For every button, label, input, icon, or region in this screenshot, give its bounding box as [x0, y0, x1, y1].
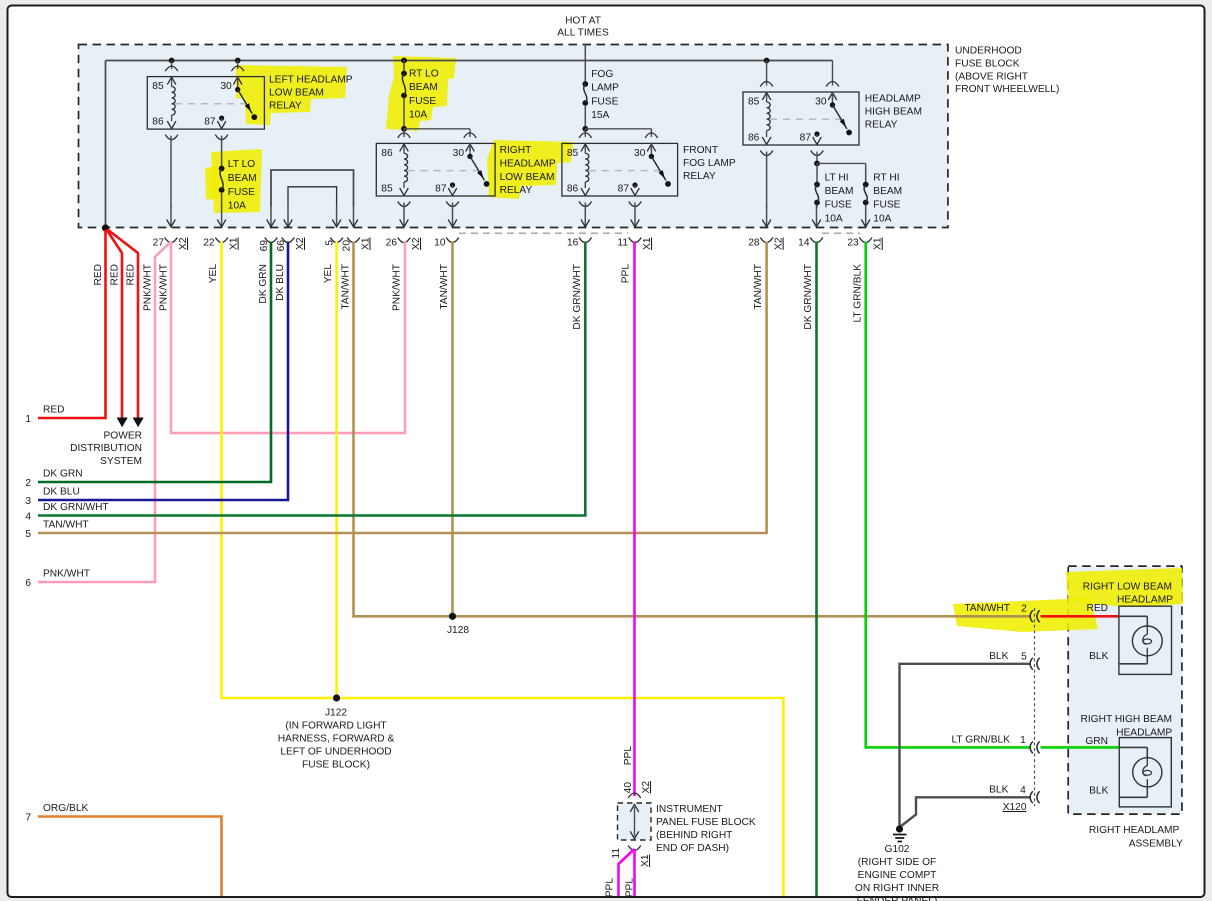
svg-text:10A: 10A [873, 213, 891, 224]
lamp E2: right high beam headlamp bulb [1119, 738, 1171, 807]
lamp E1: right low beam headlamp bulb [1119, 606, 1172, 674]
svg-text:LEFT OF UNDERHOOD: LEFT OF UNDERHOOD [280, 747, 391, 758]
svg-text:(BEHIND RIGHT: (BEHIND RIGHT [656, 830, 732, 841]
svg-text:G102: G102 [885, 844, 910, 855]
highlight: right low beam headlamp label + wire [1066, 568, 1183, 607]
svg-text:DK BLU: DK BLU [275, 264, 286, 301]
svg-text:26: 26 [386, 238, 398, 249]
svg-text:X1: X1 [642, 237, 653, 250]
svg-text:RIGHT LOW BEAM: RIGHT LOW BEAM [1083, 582, 1172, 593]
label: J122 (IN FORWARD LIGHT HARNESS...) [278, 708, 395, 771]
svg-text:INSTRUMENT: INSTRUMENT [656, 804, 723, 815]
svg-text:86: 86 [567, 184, 579, 195]
wire: DK BLU pin 66 to row 3 [38, 242, 288, 501]
wire: RED feed 1 (junction to row 1) [38, 230, 106, 418]
label: POWER DISTRIBUTION SYSTEM [70, 430, 142, 467]
svg-text:X2: X2 [411, 237, 422, 250]
svg-text:11: 11 [617, 238, 628, 249]
svg-text:87: 87 [204, 117, 216, 128]
svg-text:10A: 10A [228, 201, 246, 212]
svg-text:J128: J128 [447, 625, 469, 636]
label: RIGHT HIGH BEAM HEADLAMP [1080, 714, 1172, 739]
svg-text:RIGHT HIGH BEAM: RIGHT HIGH BEAM [1080, 714, 1172, 725]
underhood fuse block (dashed box) [79, 45, 948, 228]
connector pin 66 at fuse block bottom [276, 206, 306, 252]
svg-text:40: 40 [623, 782, 634, 794]
svg-text:X1: X1 [361, 237, 372, 250]
wire: B+ bus rail inside fuse block [106, 61, 833, 229]
wire: PNK/WHT pin 27 branch to row 6 [38, 242, 171, 583]
wire: TAN/WHT pin 20 to J128 [354, 242, 453, 617]
svg-text:BEAM: BEAM [409, 82, 438, 93]
svg-text:LT GRN/BLK: LT GRN/BLK [853, 264, 864, 323]
svg-text:X120: X120 [1003, 802, 1027, 813]
svg-text:RIGHT: RIGHT [500, 145, 532, 156]
svg-text:BEAM: BEAM [873, 186, 902, 197]
svg-text:5: 5 [1021, 652, 1027, 663]
connector pin 27 at fuse block bottom [153, 206, 189, 250]
svg-text:TAN/WHT: TAN/WHT [753, 264, 764, 310]
svg-text:TAN/WHT: TAN/WHT [964, 603, 1010, 614]
svg-text:30: 30 [453, 148, 465, 159]
connector grouping dashed line pins 10-16-11 [459, 232, 628, 234]
node: circuit 5 TAN/WHT [25, 520, 88, 541]
svg-text:FUSE BLOCK: FUSE BLOCK [955, 58, 1020, 69]
svg-text:HIGH BEAM: HIGH BEAM [865, 106, 922, 117]
connector pin 5 at fuse block bottom [325, 206, 343, 246]
connector X120 dashed line [1034, 608, 1036, 806]
instrument panel fuse block internal arrow [630, 805, 639, 839]
svg-text:20: 20 [342, 240, 353, 252]
wire: LT GRN/BLK pin 23 to right high beam headlamp [866, 242, 1030, 748]
svg-text:10: 10 [434, 238, 446, 249]
svg-text:RELAY: RELAY [500, 185, 533, 196]
highlight: LT LO BEAM FUSE label [211, 149, 262, 213]
svg-text:RED: RED [110, 264, 121, 286]
wire: BLK right low beam headlamp to G102 [900, 664, 1030, 826]
wire: GRN into right high beam headlamp [1041, 746, 1120, 749]
connector grouping dashed line pins 14-23 [822, 232, 860, 234]
svg-text:2: 2 [25, 478, 31, 489]
arrow: power distribution feed 3 [133, 418, 144, 428]
svg-text:10A: 10A [825, 213, 843, 224]
fuse: RT HI BEAM FUSE 10A [863, 163, 902, 224]
svg-text:ORG/BLK: ORG/BLK [43, 803, 88, 814]
svg-text:RELAY: RELAY [269, 100, 302, 111]
svg-text:UNDERHOOD: UNDERHOOD [955, 46, 1022, 57]
svg-text:30: 30 [634, 148, 646, 159]
wire: jumper pin 66 to pin 5 (inner bridge) [288, 187, 337, 206]
wire: DK GRN/WHT pin 14 off page bottom [815, 242, 818, 897]
svg-text:22: 22 [203, 238, 215, 249]
wire: PPL from instrument panel pin 11 straight down [633, 849, 636, 896]
svg-text:FUSE: FUSE [409, 96, 436, 107]
svg-text:RELAY: RELAY [865, 119, 898, 130]
wire: YEL pin 22 to J122 and down [222, 242, 784, 897]
svg-text:30: 30 [220, 81, 232, 92]
svg-text:RED: RED [93, 264, 104, 286]
highlight: left headlamp low beam relay label [205, 56, 1183, 632]
relay K2: RIGHT HEADLAMP LOW BEAM RELAY [376, 133, 556, 207]
connector pin 14 at fuse block bottom [798, 206, 823, 249]
svg-text:GRN: GRN [1085, 736, 1108, 747]
svg-text:11: 11 [611, 848, 622, 859]
relay K4: HEADLAMP HIGH BEAM RELAY [743, 58, 922, 156]
svg-text:BLK: BLK [989, 651, 1008, 662]
svg-text:LEFT HEADLAMP: LEFT HEADLAMP [269, 75, 353, 86]
svg-text:FUSE: FUSE [591, 96, 618, 107]
junction: fog fuse output split [582, 126, 588, 132]
svg-text:10A: 10A [409, 110, 427, 121]
svg-text:HEADLAMP: HEADLAMP [500, 158, 556, 169]
connector pin 20 at fuse block bottom [342, 206, 372, 252]
wire: RED feed 3 (to power distribution) [108, 230, 139, 419]
relay K3: FRONT FOG LAMP RELAY [562, 133, 736, 207]
svg-text:PNK/WHT: PNK/WHT [143, 264, 154, 311]
wire: PNK/WHT pin 27 to pin 26 [171, 242, 405, 434]
label: UNDERHOOD FUSE BLOCK [955, 46, 1059, 96]
svg-text:RT HI: RT HI [873, 173, 899, 184]
svg-text:30: 30 [815, 97, 827, 108]
node: HOT AT ALL TIMES feed [557, 16, 609, 39]
svg-text:YEL: YEL [208, 264, 219, 284]
wire: K2 pin 85 to connector pin 26 [403, 203, 405, 208]
svg-text:TAN/WHT: TAN/WHT [341, 264, 352, 310]
svg-text:27: 27 [153, 238, 165, 249]
svg-text:SYSTEM: SYSTEM [100, 456, 142, 467]
node: circuit 1 RED [25, 405, 64, 426]
wire: TAN/WHT pin 10 to J128 and right to headlamp [453, 242, 1030, 617]
junction J128 [449, 613, 456, 620]
svg-text:ASSEMBLY: ASSEMBLY [1129, 839, 1183, 850]
svg-text:LT LO: LT LO [228, 159, 255, 170]
connector pin 28 at fuse block bottom [748, 206, 784, 250]
svg-text:LAMP: LAMP [591, 83, 619, 94]
svg-text:X2: X2 [178, 237, 189, 250]
wire: DK GRN/WHT pin 16 to row 4 [38, 242, 585, 516]
connector pin 69 at fuse block bottom [259, 206, 277, 252]
wire: K3 pin 86 to connector pin 16 [584, 203, 586, 208]
svg-text:POWER: POWER [104, 430, 143, 441]
svg-text:PNK/WHT: PNK/WHT [392, 264, 403, 311]
svg-text:PANEL FUSE BLOCK: PANEL FUSE BLOCK [656, 817, 756, 828]
svg-text:87: 87 [618, 184, 630, 195]
svg-text:LT GRN/BLK: LT GRN/BLK [951, 735, 1010, 746]
svg-text:FUSE: FUSE [825, 200, 852, 211]
svg-text:J122: J122 [325, 708, 347, 719]
svg-text:PNK/WHT: PNK/WHT [159, 264, 170, 311]
connector pin 23 at fuse block bottom [847, 206, 883, 250]
svg-text:RIGHT HEADLAMP: RIGHT HEADLAMP [1089, 825, 1180, 836]
svg-text:85: 85 [381, 184, 393, 195]
svg-text:BLK: BLK [1089, 651, 1108, 662]
svg-text:86: 86 [152, 117, 164, 128]
svg-text:LOW BEAM: LOW BEAM [269, 87, 324, 98]
svg-text:FUSE: FUSE [873, 200, 900, 211]
svg-text:RELAY: RELAY [683, 171, 716, 182]
connector X120 pin 4 (BLK) [989, 785, 1108, 804]
svg-text:FENDER PANEL): FENDER PANEL) [857, 896, 938, 901]
svg-text:BEAM: BEAM [825, 186, 854, 197]
wire: K1 pin 86 to connector pin 27 [170, 136, 172, 208]
svg-text:TAN/WHT: TAN/WHT [43, 520, 89, 531]
svg-text:HARNESS, FORWARD &: HARNESS, FORWARD & [278, 734, 395, 745]
svg-text:BLK: BLK [989, 785, 1008, 796]
svg-text:86: 86 [381, 148, 393, 159]
svg-text:ENGINE COMPT: ENGINE COMPT [858, 870, 937, 881]
svg-text:16: 16 [567, 238, 579, 249]
svg-text:69: 69 [259, 240, 270, 252]
svg-text:87: 87 [800, 133, 812, 144]
connector X120 pin 2 (TAN/WHT to RED) [964, 603, 1108, 622]
svg-text:66: 66 [276, 240, 287, 252]
svg-text:BLK: BLK [1089, 786, 1108, 797]
wire: K3 pin 87 to connector pin 11 [634, 203, 636, 208]
connector pin 16 at fuse block bottom [567, 206, 592, 249]
svg-text:FUSE: FUSE [228, 187, 255, 198]
junction J122 [333, 694, 340, 701]
svg-text:1: 1 [1020, 735, 1026, 746]
wire: YEL pin 5 to J122 [335, 242, 338, 699]
relay K1: LEFT HEADLAMP LOW BEAM RELAY [147, 58, 353, 140]
connector pin 11 at fuse block bottom [617, 206, 653, 250]
svg-text:X2: X2 [774, 237, 785, 250]
junction dot: rail to left feed [102, 224, 109, 231]
svg-text:FRONT WHEELWELL): FRONT WHEELWELL) [955, 84, 1059, 95]
svg-text:ON RIGHT INNER: ON RIGHT INNER [855, 883, 939, 894]
svg-text:FRONT: FRONT [683, 145, 718, 156]
highlight: RT LO BEAM FUSE label [386, 56, 456, 131]
svg-text:5: 5 [25, 529, 31, 540]
connector pin 26 at fuse block bottom [386, 206, 422, 250]
svg-text:14: 14 [798, 238, 810, 249]
svg-text:85: 85 [567, 148, 579, 159]
svg-text:FOG: FOG [591, 69, 613, 80]
svg-text:HEADLAMP: HEADLAMP [1116, 728, 1172, 739]
wire: PPL pin 11 to instrument panel fuse block [633, 242, 636, 797]
wire: RED feed 2 (to power distribution) [107, 230, 123, 419]
svg-text:86: 86 [748, 133, 760, 144]
fuse: FOG LAMP FUSE 15A [582, 45, 619, 129]
right headlamp assembly (dashed box) [1068, 566, 1182, 814]
wire: fog fuse output to K3 pins 85 and 30 [585, 129, 651, 137]
svg-text:X2: X2 [295, 237, 306, 250]
wire: ORG/BLK row 7 off page bottom [38, 817, 222, 897]
svg-text:2: 2 [1021, 604, 1027, 615]
label: INSTRUMENT PANEL FUSE BLOCK [656, 804, 756, 854]
svg-text:HEADLAMP: HEADLAMP [865, 94, 921, 105]
wire: fuse output to K2 pins 86 and 30 [404, 129, 470, 137]
fuse: RT LO BEAM FUSE 10A [401, 58, 439, 129]
wire: K4 pin 86 to connector pin 28 [766, 152, 768, 208]
svg-text:15A: 15A [591, 110, 609, 121]
svg-text:DISTRIBUTION: DISTRIBUTION [70, 443, 142, 454]
svg-text:DK GRN/WHT: DK GRN/WHT [803, 264, 814, 330]
connector pin 11 out of instrument panel fuse block [611, 846, 651, 867]
node: circuit 6 PNK/WHT [25, 569, 90, 590]
svg-text:YEL: YEL [323, 264, 334, 284]
svg-text:4: 4 [25, 512, 31, 523]
wire: jumper pin 69 to pin 20 (outer bridge) [271, 170, 354, 206]
svg-text:FUSE BLOCK): FUSE BLOCK) [302, 760, 370, 771]
connector pin 22 at fuse block bottom [203, 206, 239, 250]
node: circuit 3 DK BLU [25, 487, 79, 508]
svg-text:X1: X1 [873, 237, 884, 250]
svg-text:5: 5 [325, 240, 336, 246]
svg-text:RED: RED [1086, 603, 1108, 614]
wire: RED into right low beam headlamp [1041, 615, 1119, 618]
svg-text:PPL: PPL [621, 264, 632, 284]
instrument panel fuse block (dashed box) [618, 803, 652, 840]
svg-text:DK GRN: DK GRN [43, 469, 83, 480]
svg-text:HEADLAMP: HEADLAMP [1117, 595, 1173, 606]
wire: BLK right high beam headlamp to G102 [901, 797, 1030, 826]
node: circuit 4 DK GRN/WHT [25, 502, 108, 523]
label: RIGHT HEADLAMP ASSEMBLY [1089, 825, 1183, 850]
svg-text:PNK/WHT: PNK/WHT [43, 569, 90, 580]
svg-text:(RIGHT SIDE OF: (RIGHT SIDE OF [858, 857, 937, 868]
svg-text:DK BLU: DK BLU [43, 487, 80, 498]
svg-text:FOG LAMP: FOG LAMP [683, 158, 736, 169]
svg-text:DK GRN/WHT: DK GRN/WHT [572, 264, 583, 330]
node: circuit 2 DK GRN [25, 469, 82, 490]
wire: K2 pin 87 to connector pin 10 [452, 203, 454, 208]
connector pin 40 into instrument panel fuse block [623, 781, 652, 798]
svg-text:1: 1 [25, 414, 31, 425]
svg-text:4: 4 [1020, 785, 1026, 796]
svg-text:3: 3 [25, 496, 31, 507]
junction: K4 pin 87 split to HI beam fuses [814, 152, 866, 167]
svg-text:DK GRN/WHT: DK GRN/WHT [43, 502, 109, 513]
svg-text:85: 85 [748, 97, 760, 108]
svg-text:HOT AT: HOT AT [565, 16, 601, 27]
highlight: right headlamp low beam relay label [487, 140, 573, 199]
svg-text:85: 85 [152, 81, 164, 92]
label: RIGHT LOW BEAM HEADLAMP [1083, 582, 1173, 606]
connector X120 pin 5 (BLK) [989, 651, 1108, 670]
svg-text:DK GRN: DK GRN [258, 264, 269, 304]
svg-text:6: 6 [25, 578, 31, 589]
svg-text:X1: X1 [640, 854, 651, 867]
svg-text:ALL TIMES: ALL TIMES [557, 28, 609, 39]
arrow: power distribution feed 2 [117, 418, 128, 428]
svg-text:87: 87 [435, 184, 447, 195]
svg-text:X1: X1 [229, 237, 240, 250]
wire: DK GRN pin 69 to row 2 [38, 242, 271, 483]
connector pin 10 at fuse block bottom [434, 206, 459, 249]
svg-text:(IN FORWARD LIGHT: (IN FORWARD LIGHT [285, 721, 386, 732]
fuse: LT HI BEAM FUSE 10A [814, 163, 853, 224]
label: G102 (RIGHT SIDE OF ENGINE COMPT ON RIGHT INNER FENDER PANEL) [855, 844, 939, 901]
wire: TAN/WHT pin 28 to row 5 [38, 242, 767, 534]
svg-text:RED: RED [43, 405, 65, 416]
svg-text:(ABOVE RIGHT: (ABOVE RIGHT [955, 71, 1028, 82]
svg-text:TAN/WHT: TAN/WHT [439, 264, 450, 310]
connector X120 pin 1 (LT GRN/BLK to GRN) [951, 735, 1108, 754]
svg-text:LT HI: LT HI [825, 173, 849, 184]
wire: PPL from instrument panel pin 11 branch left down [619, 849, 635, 896]
svg-text:BEAM: BEAM [228, 173, 257, 184]
svg-text:LOW BEAM: LOW BEAM [500, 172, 555, 183]
svg-text:7: 7 [25, 813, 31, 824]
fuse: LT LO BEAM FUSE 10A (K1 pin 87 to pin 22) [219, 136, 257, 212]
svg-text:RT LO: RT LO [409, 69, 439, 80]
node: circuit 7 ORG/BLK [25, 803, 88, 824]
svg-text:X2: X2 [641, 781, 652, 794]
svg-text:PPL: PPL [623, 746, 634, 766]
svg-text:END OF DASH): END OF DASH) [656, 843, 729, 854]
junction: RT LO fuse output split [401, 126, 407, 132]
ground G102 [893, 825, 907, 841]
svg-text:28: 28 [748, 238, 760, 249]
svg-text:23: 23 [847, 238, 859, 249]
svg-text:RED: RED [126, 264, 137, 286]
svg-text:PPL: PPL [625, 878, 636, 898]
svg-text:PPL: PPL [605, 878, 616, 898]
